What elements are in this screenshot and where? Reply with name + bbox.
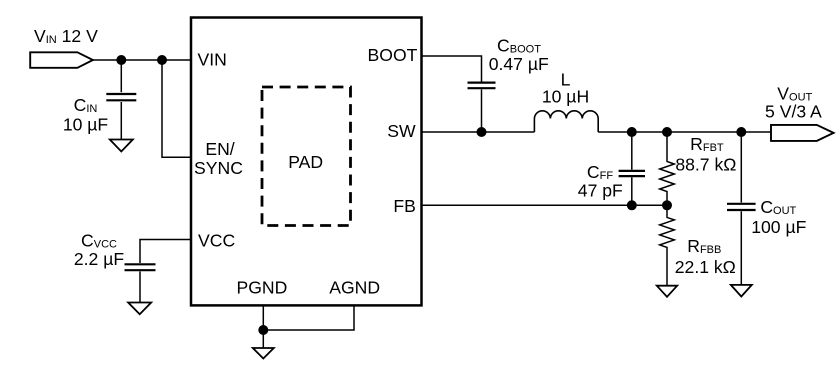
- svg-text:PGND: PGND: [236, 278, 287, 298]
- svg-text:10 µH: 10 µH: [542, 87, 589, 107]
- svg-text:RFBB: RFBB: [687, 236, 721, 256]
- ground (under COUT): [731, 285, 752, 297]
- wire CVCC to ground: [139, 272, 141, 303]
- capacitor CFF: [619, 171, 645, 176]
- wire COUT drop: [740, 132, 742, 203]
- svg-text:SYNC: SYNC: [194, 158, 243, 178]
- svg-text:RFBT: RFBT: [690, 134, 724, 154]
- resistor RFBT: [660, 132, 675, 205]
- svg-text:100 µF: 100 µF: [751, 217, 806, 237]
- wire CBOOT to SW node: [481, 90, 483, 133]
- junction node VIN/CIN: [116, 55, 126, 65]
- junction node SW/CFF: [627, 127, 637, 137]
- svg-text:FB: FB: [393, 196, 415, 216]
- svg-text:2.2 µF: 2.2 µF: [74, 249, 124, 269]
- wire EN/SYNC: [162, 60, 191, 157]
- wire VIN rail: [93, 59, 191, 61]
- wire CFF drop: [631, 132, 633, 170]
- capacitor CVCC: [125, 264, 156, 270]
- svg-text:EN/: EN/: [205, 139, 234, 159]
- svg-text:0.47 µF: 0.47 µF: [489, 54, 549, 74]
- wire CIN drop: [120, 60, 122, 92]
- junction node SW/RFBT: [662, 127, 672, 137]
- junction node FB/RFB: [662, 200, 672, 210]
- wire CIN to ground: [120, 102, 122, 140]
- svg-text:10 µF: 10 µF: [63, 114, 109, 134]
- wire PGND: [262, 305, 264, 348]
- wire FB rail: [422, 204, 668, 206]
- wire VCC: [140, 240, 191, 264]
- capacitor CBOOT: [468, 83, 496, 89]
- junction node FB/CFF: [627, 200, 637, 210]
- svg-text:CBOOT: CBOOT: [497, 36, 541, 56]
- wire AGND: [263, 305, 354, 330]
- wire COUT to ground: [740, 211, 742, 285]
- svg-text:AGND: AGND: [329, 278, 380, 298]
- svg-text:COUT: COUT: [760, 197, 796, 217]
- inductor L: [534, 111, 598, 132]
- svg-text:22.1 kΩ: 22.1 kΩ: [675, 257, 736, 277]
- junction node PGND/AGND: [258, 325, 268, 335]
- capacitor CIN: [106, 94, 136, 100]
- output flag VOUT: [771, 125, 834, 141]
- svg-text:CVCC: CVCC: [81, 230, 117, 250]
- svg-text:47 pF: 47 pF: [578, 180, 623, 200]
- PAD thermal pad (dashed): [262, 87, 351, 226]
- junction node VIN/EN: [157, 55, 167, 65]
- svg-text:5 V/3 A: 5 V/3 A: [765, 101, 822, 121]
- svg-text:VIN 12 V: VIN 12 V: [34, 26, 98, 46]
- resistor RFBB: [660, 205, 675, 285]
- svg-text:VCC: VCC: [198, 231, 235, 251]
- wire SW rail right: [598, 131, 771, 133]
- capacitor COUT: [727, 204, 756, 210]
- ground (under CVCC): [128, 303, 151, 315]
- wire SW rail left: [422, 131, 535, 133]
- svg-text:SW: SW: [387, 121, 416, 141]
- ground (under CIN): [110, 140, 133, 152]
- svg-text:88.7 kΩ: 88.7 kΩ: [675, 155, 736, 175]
- svg-text:CIN: CIN: [74, 95, 98, 115]
- svg-text:PAD: PAD: [288, 152, 323, 172]
- ground (PGND/AGND): [253, 348, 274, 359]
- IC U1 body: [191, 18, 422, 306]
- svg-text:VIN: VIN: [198, 50, 227, 70]
- svg-text:BOOT: BOOT: [368, 45, 418, 65]
- wire CFF to FB rail: [631, 177, 633, 205]
- svg-text:CFF: CFF: [587, 162, 613, 182]
- wire BOOT: [422, 56, 482, 82]
- junction node VOUT/COUT: [736, 127, 746, 137]
- ground (under RFBB): [657, 286, 677, 297]
- junction node SW/CBOOT: [477, 127, 487, 137]
- input flag VIN: [30, 52, 93, 68]
